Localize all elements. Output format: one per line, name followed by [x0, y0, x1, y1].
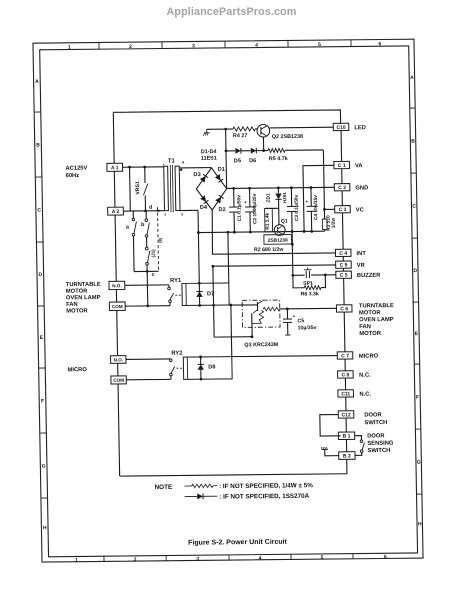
svg-text:SWITCH: SWITCH	[367, 448, 390, 454]
svg-text:C 5: C 5	[340, 273, 348, 279]
svg-text:VRS1: VRS1	[135, 181, 141, 195]
svg-text:R6 3.3k: R6 3.3k	[301, 291, 319, 297]
svg-text:1: 1	[75, 557, 78, 563]
svg-text:B: B	[36, 143, 40, 149]
svg-text:Q3 KRC243M: Q3 KRC243M	[244, 342, 278, 348]
svg-text:C 2: C 2	[338, 185, 346, 191]
svg-text:A 2: A 2	[112, 209, 120, 215]
svg-text:C 7: C 7	[341, 353, 349, 359]
svg-text:(8): (8)	[158, 237, 163, 243]
svg-text:+: +	[244, 200, 247, 205]
svg-text:A: A	[35, 79, 39, 85]
svg-text:C3 0.1µ/50v: C3 0.1µ/50v	[294, 194, 300, 221]
svg-text:MICRO: MICRO	[359, 353, 379, 359]
svg-text:R1 2.4k: R1 2.4k	[265, 212, 271, 229]
svg-text:1/2w: 1/2w	[331, 218, 337, 229]
svg-text:D4: D4	[200, 205, 208, 211]
svg-text:F: F	[41, 399, 44, 405]
svg-text:B: B	[411, 139, 415, 145]
svg-text:D1: D1	[218, 167, 225, 173]
svg-text:C 6: C 6	[340, 306, 348, 312]
svg-text:H: H	[43, 525, 47, 531]
svg-text:RY2: RY2	[171, 351, 182, 357]
svg-text:T1: T1	[168, 158, 176, 164]
svg-text:SENSING: SENSING	[367, 441, 394, 447]
svg-text:Figure S-2. Power Unit Circuit: Figure S-2. Power Unit Circuit	[188, 539, 288, 547]
svg-text:C12: C12	[341, 412, 350, 418]
svg-text:NOTE: NOTE	[154, 484, 173, 491]
svg-text:A 1: A 1	[111, 165, 119, 171]
svg-text:HZ61: HZ61	[282, 192, 287, 203]
svg-text:: IF NOT SPECIFIED, 1/4W ± 5%: : IF NOT SPECIFIED, 1/4W ± 5%	[219, 482, 313, 490]
svg-text:VC: VC	[356, 207, 365, 213]
svg-text:MOTOR: MOTOR	[66, 289, 88, 295]
svg-text:DOOR: DOOR	[364, 412, 382, 418]
svg-text:R5 4.7k: R5 4.7k	[269, 156, 288, 162]
svg-text:ZD1: ZD1	[266, 193, 272, 202]
svg-text:a: a	[126, 224, 130, 230]
svg-text:C4 10µ/35v: C4 10µ/35v	[313, 195, 319, 220]
svg-text:8: 8	[181, 213, 183, 217]
svg-text:B 2: B 2	[343, 453, 351, 459]
svg-text:AC125V: AC125V	[65, 166, 87, 172]
svg-text:R2 680 1/2w: R2 680 1/2w	[254, 247, 284, 253]
svg-text:c: c	[152, 272, 155, 278]
svg-text:60Hz: 60Hz	[66, 173, 80, 179]
svg-text:D2: D2	[218, 207, 225, 213]
svg-text:INT: INT	[356, 251, 366, 257]
svg-text:D7: D7	[207, 291, 214, 297]
svg-text:: IF NOT SPECIFIED, 1SS270A: : IF NOT SPECIFIED, 1SS270A	[219, 493, 309, 501]
svg-text:OVEN LAMP: OVEN LAMP	[359, 317, 394, 323]
svg-text:3: 3	[192, 43, 195, 49]
svg-text:D8: D8	[208, 364, 215, 370]
svg-text:C2 1000µ/35v: C2 1000µ/35v	[252, 193, 259, 224]
svg-text:3: 3	[164, 213, 166, 217]
svg-text:D1-D4: D1-D4	[201, 149, 217, 155]
svg-text:GND: GND	[355, 185, 368, 191]
svg-text:Q1: Q1	[281, 219, 288, 225]
svg-text:C11: C11	[341, 391, 350, 397]
svg-text:6: 6	[384, 554, 387, 560]
svg-text:R4 27: R4 27	[233, 133, 247, 139]
svg-text:VR: VR	[357, 263, 366, 269]
svg-text:MOTOR: MOTOR	[66, 308, 88, 314]
svg-text:VA: VA	[355, 163, 364, 169]
svg-text:N.C.: N.C.	[359, 373, 371, 379]
svg-text:COM: COM	[113, 378, 124, 383]
svg-text:+: +	[305, 199, 308, 204]
svg-text:BUZZER: BUZZER	[357, 273, 381, 279]
svg-text:4: 4	[255, 43, 258, 49]
svg-text:A: A	[410, 75, 414, 81]
svg-text:2: 2	[134, 557, 137, 563]
svg-text:C 4: C 4	[339, 251, 347, 257]
svg-text:N.O.: N.O.	[114, 357, 124, 362]
svg-text:D6: D6	[249, 158, 256, 164]
svg-text:4: 4	[182, 161, 185, 165]
svg-text:C10: C10	[336, 125, 345, 131]
svg-text:10µ/35v: 10µ/35v	[298, 325, 317, 331]
svg-text:2: 2	[129, 44, 132, 50]
svg-text:G: G	[417, 460, 421, 466]
svg-text:4: 4	[259, 556, 262, 562]
svg-text:C: C	[37, 208, 41, 214]
svg-text:5: 5	[321, 555, 324, 561]
svg-text:11ES1: 11ES1	[201, 156, 217, 162]
svg-text:5: 5	[318, 42, 321, 48]
svg-text:C 1: C 1	[338, 163, 346, 169]
svg-text:G: G	[42, 464, 46, 470]
svg-text:(J1): (J1)	[151, 249, 156, 258]
svg-text:LED: LED	[354, 125, 366, 131]
svg-text:C: C	[412, 204, 416, 210]
svg-text:RY1: RY1	[170, 278, 182, 284]
svg-text:TURNTABLE: TURNTABLE	[359, 303, 394, 309]
svg-text:F: F	[416, 395, 419, 401]
svg-text:TURNTABLE: TURNTABLE	[66, 282, 101, 288]
svg-text:N.O.: N.O.	[112, 283, 122, 288]
svg-text:1: 1	[68, 45, 71, 51]
svg-text:b: b	[141, 222, 145, 228]
svg-text:d: d	[149, 205, 152, 211]
svg-text:SWITCH: SWITCH	[364, 420, 387, 426]
svg-text:COM: COM	[112, 304, 123, 309]
svg-text:D5: D5	[234, 158, 241, 164]
svg-text:E: E	[40, 335, 44, 341]
svg-text:6: 6	[378, 41, 381, 47]
svg-text:N.C.: N.C.	[359, 392, 371, 398]
svg-text:C 9: C 9	[340, 262, 348, 268]
svg-text:H: H	[418, 521, 422, 527]
svg-text:C5: C5	[297, 318, 304, 324]
svg-text:2SB1238: 2SB1238	[268, 238, 288, 244]
svg-text:MICRO: MICRO	[67, 367, 87, 373]
svg-text:Q2 2SB1238: Q2 2SB1238	[272, 134, 303, 140]
svg-text:C 8: C 8	[341, 372, 349, 378]
svg-text:FAN: FAN	[359, 324, 371, 330]
svg-text:MOTOR: MOTOR	[359, 331, 381, 337]
svg-text:+: +	[293, 314, 296, 319]
svg-text:MOTOR: MOTOR	[359, 310, 381, 316]
svg-text:DOOR: DOOR	[367, 433, 385, 439]
svg-text:3: 3	[196, 556, 199, 562]
svg-text:D: D	[38, 272, 42, 278]
svg-text:E: E	[415, 331, 419, 337]
svg-text:D3: D3	[193, 172, 200, 178]
svg-text:D: D	[413, 268, 417, 274]
svg-text:FAN: FAN	[66, 302, 78, 308]
svg-text:OVEN LAMP: OVEN LAMP	[66, 295, 101, 301]
svg-text:B 1: B 1	[343, 434, 351, 440]
svg-text:C1 0.1µ/50v: C1 0.1µ/50v	[236, 195, 242, 222]
svg-text:C 3: C 3	[339, 207, 347, 213]
